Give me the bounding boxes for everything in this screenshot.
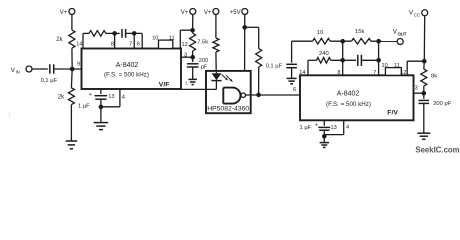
svg-text:3: 3 xyxy=(184,52,187,58)
svg-text:V+: V+ xyxy=(181,10,189,16)
svg-text:7: 7 xyxy=(373,70,376,76)
svg-text:6: 6 xyxy=(293,87,296,93)
svg-text:V/F: V/F xyxy=(159,81,170,88)
svg-text:A-8402: A-8402 xyxy=(337,91,360,98)
svg-text:13: 13 xyxy=(331,125,337,131)
svg-text:11: 11 xyxy=(394,63,400,69)
svg-text:0.1 µF: 0.1 µF xyxy=(266,63,283,69)
svg-text:13: 13 xyxy=(108,94,114,100)
svg-text:F/V: F/V xyxy=(387,110,398,117)
svg-text:10: 10 xyxy=(152,35,158,41)
svg-text:(F.S. = 500 kHz): (F.S. = 500 kHz) xyxy=(326,101,371,108)
svg-text:11: 11 xyxy=(169,35,175,41)
svg-text:A-8402: A-8402 xyxy=(116,62,139,69)
svg-text:4: 4 xyxy=(346,124,349,130)
svg-text:2k: 2k xyxy=(56,37,63,43)
svg-text:4: 4 xyxy=(122,95,125,101)
svg-text:0.1 µF: 0.1 µF xyxy=(41,78,58,84)
svg-text:15k: 15k xyxy=(355,29,364,35)
svg-text:+: + xyxy=(89,92,92,98)
svg-text:pF: pF xyxy=(201,64,208,70)
svg-text:3: 3 xyxy=(415,85,418,91)
svg-text:10: 10 xyxy=(382,63,388,69)
svg-text:HP5082-4360: HP5082-4360 xyxy=(207,106,249,113)
svg-text:V+: V+ xyxy=(204,10,212,16)
svg-text:14: 14 xyxy=(76,41,82,47)
svg-text:CC: CC xyxy=(414,13,420,18)
svg-text:8k: 8k xyxy=(431,73,437,79)
svg-text:9: 9 xyxy=(77,61,80,67)
svg-text:200: 200 xyxy=(199,58,208,64)
svg-text:7: 7 xyxy=(129,41,132,47)
svg-text:8: 8 xyxy=(111,41,114,47)
svg-text:IN: IN xyxy=(16,70,20,75)
svg-text:200 pF: 200 pF xyxy=(433,101,452,107)
svg-text:+: + xyxy=(315,122,318,128)
svg-text:SeekIC.com: SeekIC.com xyxy=(415,146,459,155)
svg-text:12: 12 xyxy=(182,42,188,48)
svg-text:6: 6 xyxy=(137,41,140,47)
svg-text:V+: V+ xyxy=(60,10,68,16)
svg-text:240: 240 xyxy=(319,51,329,57)
svg-text:2k: 2k xyxy=(58,95,65,101)
svg-text:14: 14 xyxy=(299,70,305,76)
svg-text:8: 8 xyxy=(337,70,340,76)
svg-text:1: 1 xyxy=(185,80,188,86)
svg-text:+5V: +5V xyxy=(230,10,241,16)
svg-text:1 µF: 1 µF xyxy=(78,104,90,110)
svg-text:12: 12 xyxy=(400,70,406,76)
svg-text:OUT: OUT xyxy=(398,31,407,36)
svg-text:1 µF: 1 µF xyxy=(300,125,312,131)
svg-text:(’: (’ xyxy=(9,113,12,119)
svg-text:(F.S. = 500 kHz): (F.S. = 500 kHz) xyxy=(104,71,149,78)
svg-text:7.5k: 7.5k xyxy=(197,40,208,46)
svg-text:10: 10 xyxy=(317,30,323,36)
